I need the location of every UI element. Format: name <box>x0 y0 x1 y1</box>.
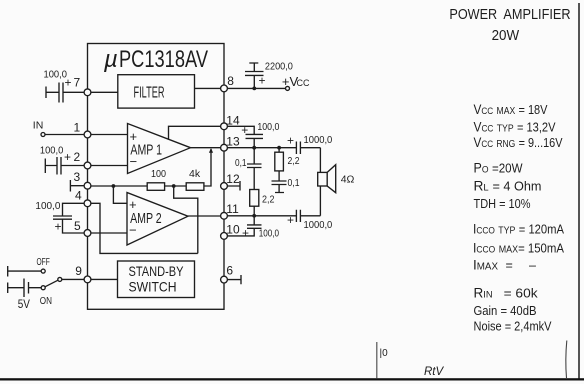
svg-text:4k: 4k <box>189 168 201 180</box>
svg-text:2,2: 2,2 <box>262 194 275 206</box>
svg-text:STAND-BY: STAND-BY <box>129 263 185 279</box>
arrowhead feedback into AMP1 output <box>209 148 213 153</box>
pin 10 <box>221 223 240 240</box>
svg-text:20W: 20W <box>492 27 520 44</box>
wire pin8 to +Vcc <box>227 87 285 89</box>
wire R2 to AMP1 output <box>204 149 211 186</box>
svg-text:2200,0: 2200,0 <box>265 61 293 73</box>
wire IN to pin 1 <box>45 134 84 136</box>
svg-text:8: 8 <box>227 74 234 88</box>
node IN terminal <box>33 120 45 137</box>
op-amp U1 µPC1318AV IC outline <box>88 44 225 310</box>
svg-text:OFF: OFF <box>37 256 50 268</box>
spec text Rin <box>474 286 539 301</box>
node junction B <box>172 184 176 188</box>
pin 1 <box>74 121 91 138</box>
switch S1 ON contact and arm <box>40 277 62 307</box>
svg-text:0,1: 0,1 <box>235 157 247 169</box>
svg-text:0,1: 0,1 <box>288 177 300 189</box>
capacitor C10 100,0 between pin 11 and pin 10 <box>227 216 279 240</box>
FILTER block <box>118 75 195 108</box>
svg-text:POWER: POWER <box>449 6 497 23</box>
wire AMP2 output to pin 11 <box>188 215 221 217</box>
pin 8 <box>221 74 235 92</box>
svg-text:4Ω: 4Ω <box>341 174 355 186</box>
svg-text:Noise = 2,4mkV: Noise = 2,4mkV <box>474 320 553 334</box>
wire pin 4 feedback loop <box>91 203 198 253</box>
svg-text:VCC RNG = 9...16V: VCC RNG = 9...16V <box>474 135 564 150</box>
wire junction B to AMP2 output <box>174 186 198 253</box>
spec text Vcc TYP <box>474 120 557 135</box>
watermark curve <box>565 341 568 379</box>
svg-text:ICCO MAX= 150mA: ICCO MAX= 150mA <box>473 241 565 256</box>
svg-text:PC1318AV: PC1318AV <box>119 46 208 73</box>
wire R1 to R2 <box>165 185 187 187</box>
pin 4 <box>75 189 91 207</box>
border bottom line <box>0 378 584 380</box>
spec text Imax <box>473 258 536 273</box>
wire AMP1 tap to pin 14 <box>169 126 221 139</box>
battery BT1 5V <box>8 279 42 312</box>
wire pin 1 to AMP1 + <box>91 134 128 136</box>
pin 14 <box>221 114 240 130</box>
svg-text:µ: µ <box>103 46 118 73</box>
svg-text:+: + <box>241 123 248 137</box>
wire pin 13 rail <box>227 147 296 149</box>
spec text RL <box>474 179 542 194</box>
spec text Noise <box>474 320 553 334</box>
resistor R1 100 <box>147 168 166 190</box>
pin 6 stub terminator <box>227 275 241 284</box>
pin 9 <box>75 264 91 283</box>
pin 12 stub terminator <box>227 181 240 191</box>
spec text Vcc RNG <box>474 135 564 150</box>
svg-text:AMP 1: AMP 1 <box>130 142 162 159</box>
svg-text:+: + <box>287 213 294 227</box>
svg-text:5V: 5V <box>18 297 30 311</box>
node junction C <box>252 146 256 150</box>
svg-text:ICCO TYP = 120mA: ICCO TYP = 120mA <box>473 222 565 237</box>
svg-text:= 60k: = 60k <box>504 287 539 301</box>
spec text Gain <box>474 304 537 318</box>
svg-text:100,0: 100,0 <box>40 145 64 157</box>
capacitor C7 0,1 right column <box>272 171 300 193</box>
capacitor C1 100,0 at pin 7 <box>44 69 85 103</box>
pin 6 <box>221 264 234 284</box>
svg-text:CC: CC <box>297 78 310 88</box>
svg-text:AMP 2: AMP 2 <box>130 210 162 227</box>
svg-text:+: + <box>259 74 266 88</box>
svg-text:|0: |0 <box>380 348 389 359</box>
node junction at pin8 rail <box>252 87 256 91</box>
svg-text:PO =20W: PO =20W <box>474 161 523 176</box>
wire FILTER to pin 8 <box>195 87 221 89</box>
wire switch to pin 9 <box>62 278 84 280</box>
svg-text:1000,0: 1000,0 <box>304 219 333 231</box>
wire pin 2 to AMP1 - <box>91 165 128 167</box>
capacitor C5 100,0 between pin 14 and pin 13 <box>227 121 279 148</box>
svg-text:100,0: 100,0 <box>259 228 279 240</box>
svg-text:12: 12 <box>226 172 240 186</box>
pin 3 stub terminator <box>70 180 84 192</box>
svg-text:100,0: 100,0 <box>44 69 68 81</box>
svg-text:4: 4 <box>75 189 82 203</box>
svg-text:2,2: 2,2 <box>288 155 300 167</box>
svg-text:+: + <box>242 226 249 240</box>
svg-text:SWITCH: SWITCH <box>129 279 177 295</box>
capacitor C6 0,1 left column <box>235 148 262 190</box>
wire pin 9 to STAND-BY block <box>91 278 118 280</box>
wire junction A to AMP2 + input <box>113 186 127 203</box>
pin 3 <box>74 170 91 189</box>
title POWER AMPLIFIER 20W <box>449 6 570 44</box>
pin 12 <box>221 172 240 189</box>
capacitor C3 100,0 at pin 2 <box>40 145 84 175</box>
wire pin7 to FILTER <box>91 91 118 93</box>
svg-text:100: 100 <box>151 168 166 180</box>
svg-text:IMAX: IMAX <box>473 258 498 273</box>
svg-text:IN: IN <box>33 120 44 132</box>
svg-text:+: + <box>55 220 62 234</box>
capacitor C2 2200,0 <box>245 61 293 89</box>
wire AMP1 output to pin 13 <box>191 147 221 149</box>
border right edge line <box>578 3 580 379</box>
svg-text:5: 5 <box>74 219 81 233</box>
resistor R2 4k <box>186 168 204 190</box>
svg-text:Gain = 40dB: Gain = 40dB <box>474 304 537 318</box>
svg-text:100,0: 100,0 <box>257 121 279 133</box>
pin 11 <box>221 202 239 219</box>
pin 7 <box>74 76 91 96</box>
svg-text:+: + <box>64 150 71 164</box>
wire pin 5 to AMP2 - <box>91 232 127 234</box>
svg-text:100,0: 100,0 <box>35 200 60 212</box>
op-amp AMP 2 <box>127 193 188 246</box>
spec text Icco MAX <box>473 241 565 256</box>
svg-text:7: 7 <box>74 76 81 90</box>
svg-text:–: – <box>529 259 536 273</box>
STAND-BY SWITCH block <box>118 261 195 298</box>
capacitor C9 1000,0 output bottom <box>287 210 332 231</box>
op-amp AMP 1 <box>128 124 191 174</box>
svg-text:RtV: RtV <box>424 366 445 378</box>
svg-text:9: 9 <box>75 264 82 278</box>
svg-text:10: 10 <box>226 223 240 237</box>
svg-text:RL = 4 Ohm: RL = 4 Ohm <box>474 179 542 194</box>
speaker LS1 4 ohm <box>318 148 355 216</box>
resistor R4 2,2 right column <box>275 148 300 171</box>
svg-text:=: = <box>506 259 513 273</box>
svg-text:TDH = 10%: TDH = 10% <box>474 197 531 211</box>
U1 label µPC1318AV <box>103 46 208 73</box>
svg-text:1000,0: 1000,0 <box>304 134 333 146</box>
switch S1 OFF contact <box>8 256 50 277</box>
pin 2 <box>74 150 91 169</box>
svg-text:14: 14 <box>226 114 240 128</box>
spec text Icco TYP <box>473 222 565 237</box>
svg-text:VCC MAX = 18V: VCC MAX = 18V <box>474 102 549 117</box>
svg-text:6: 6 <box>226 264 233 278</box>
svg-text:1: 1 <box>74 121 81 135</box>
pin 13 <box>221 135 240 152</box>
node junction A <box>112 184 116 188</box>
node junction E <box>252 214 256 218</box>
node junction D <box>277 146 281 150</box>
svg-text:2: 2 <box>74 150 81 164</box>
svg-text:11: 11 <box>226 202 239 216</box>
capacitor C4 100,0 between pin 4 and pin 5 <box>35 200 84 234</box>
spec text Vcc MAX <box>474 102 549 117</box>
wire pin 3 to resistor row <box>91 185 147 187</box>
watermark text 0 <box>380 348 389 359</box>
svg-text:FILTER: FILTER <box>134 85 165 102</box>
spec text Po <box>474 161 523 176</box>
watermark vertical line <box>376 342 378 378</box>
svg-text:ON: ON <box>40 295 52 307</box>
svg-text:3: 3 <box>74 170 81 184</box>
node +Vcc terminal <box>282 74 310 90</box>
svg-text:RIN: RIN <box>474 286 493 301</box>
wire pin 11 rail <box>227 215 296 217</box>
pin 5 <box>74 219 91 236</box>
svg-text:+: + <box>287 134 294 148</box>
resistor R3 2,2 left column <box>250 190 275 216</box>
capacitor C8 1000,0 output top <box>287 134 332 155</box>
svg-text:VCC TYP = 13,2V: VCC TYP = 13,2V <box>474 120 557 135</box>
spec text TDH <box>474 197 531 211</box>
svg-text:13: 13 <box>226 135 240 149</box>
watermark script RtV <box>424 366 445 378</box>
svg-text:AMPLIFIER: AMPLIFIER <box>503 6 570 23</box>
